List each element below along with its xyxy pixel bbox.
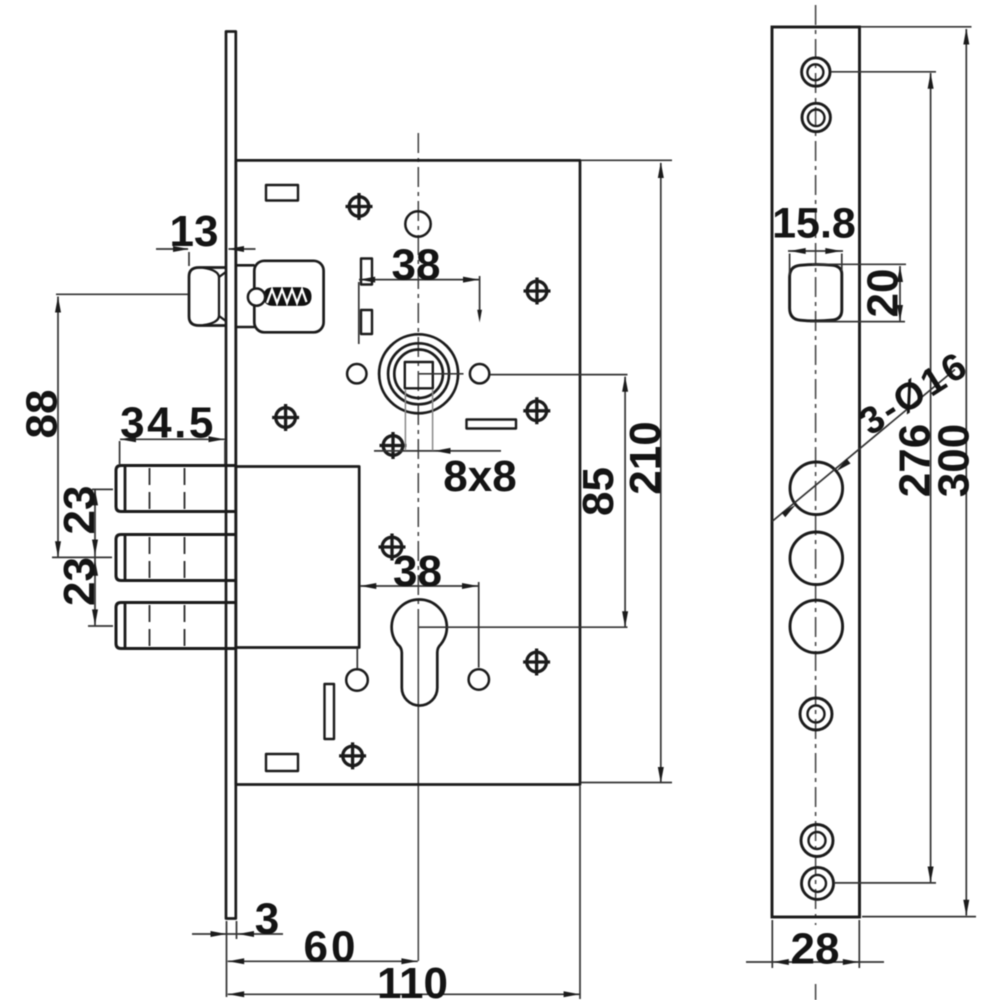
svg-text:3: 3 (255, 895, 279, 944)
svg-text:88: 88 (18, 390, 67, 439)
svg-text:85: 85 (574, 467, 623, 516)
svg-text:28: 28 (791, 925, 840, 974)
svg-text:8x8: 8x8 (443, 452, 516, 501)
svg-text:300: 300 (930, 424, 979, 497)
svg-text:15.8: 15.8 (772, 200, 856, 248)
svg-text:38: 38 (393, 547, 442, 596)
svg-text:23: 23 (55, 557, 104, 606)
svg-text:34.5: 34.5 (120, 399, 216, 448)
svg-text:23: 23 (55, 486, 104, 535)
svg-text:13: 13 (170, 207, 219, 256)
svg-text:60: 60 (304, 923, 359, 972)
svg-text:110: 110 (377, 959, 448, 1000)
svg-text:38: 38 (392, 241, 441, 290)
svg-text:20: 20 (859, 269, 908, 318)
svg-text:210: 210 (621, 421, 670, 494)
